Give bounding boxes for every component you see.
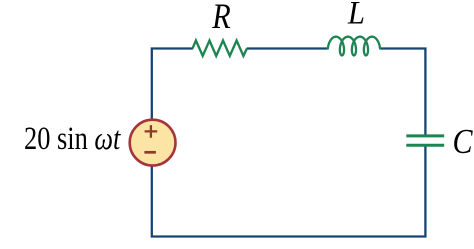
- svg-text:20 sin ωt: 20 sin ωt: [24, 120, 121, 156]
- capacitor C top plate: [406, 134, 444, 137]
- resistor R (green zigzag): [193, 41, 247, 56]
- voltage source minus sign: [144, 151, 156, 154]
- wire: top middle segment between resistor and inductor: [247, 47, 329, 49]
- inductor L (green cycloid loops): [328, 37, 380, 56]
- svg-text:C: C: [453, 122, 473, 160]
- wire: left vertical lower + bottom horizontal + right vertical lower: [152, 145, 426, 237]
- svg-text:L: L: [347, 0, 365, 31]
- capacitor C bottom plate: [406, 144, 444, 147]
- svg-text:R: R: [211, 0, 230, 37]
- voltage source plus sign: [145, 125, 158, 138]
- voltage source circle: [130, 120, 176, 166]
- wire: top-right horizontal + right vertical down to capacitor: [380, 49, 426, 137]
- wire: left vertical upper + top-left horizontal segment: [152, 49, 193, 121]
